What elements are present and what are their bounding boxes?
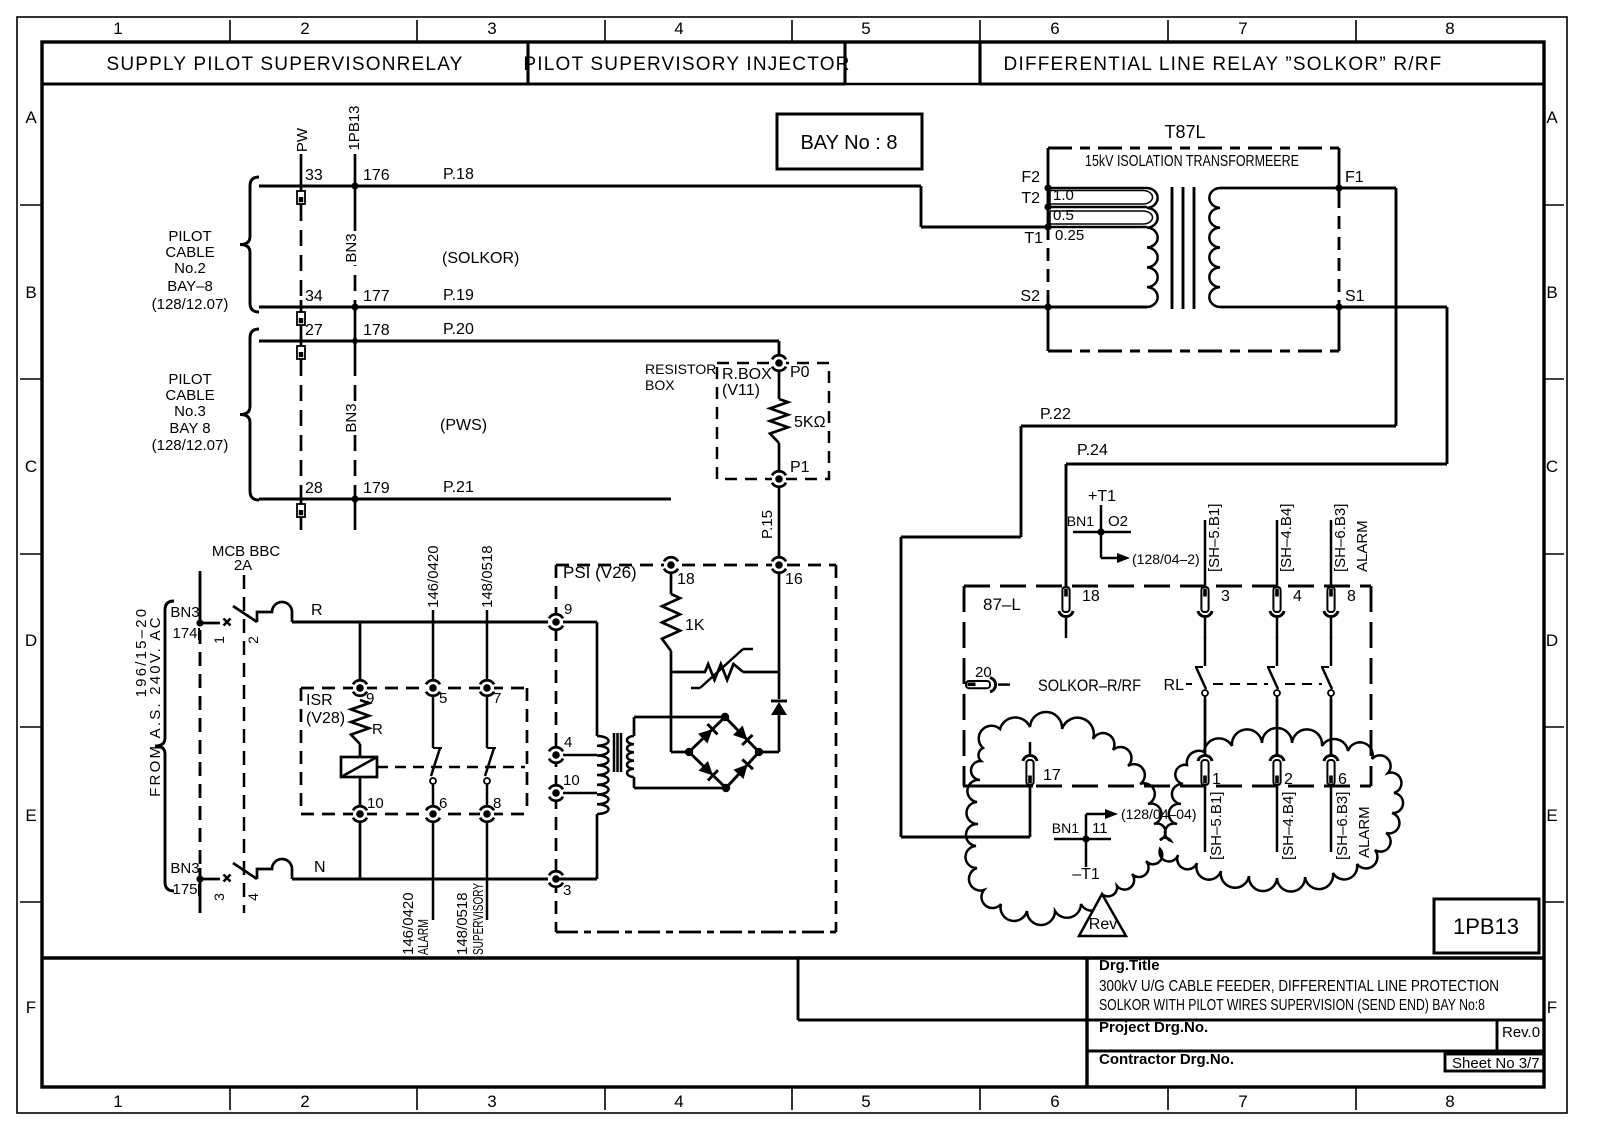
svg-text:DIFFERENTIAL LINE RELAY ”SO: DIFFERENTIAL LINE RELAY ”SOLKOR” R/RF [1004, 54, 1443, 75]
svg-text:C: C [1546, 457, 1558, 476]
svg-text:7: 7 [1238, 1092, 1247, 1111]
svg-text:Contractor Drg.No.: Contractor Drg.No. [1099, 1051, 1234, 1068]
svg-text:1.0: 1.0 [1053, 187, 1074, 204]
svg-text:P1: P1 [790, 459, 810, 476]
svg-text:O2: O2 [1108, 513, 1128, 530]
svg-text:10: 10 [563, 772, 580, 789]
svg-text:4: 4 [245, 893, 261, 901]
svg-text:6: 6 [439, 795, 447, 812]
svg-text:18: 18 [1082, 588, 1100, 605]
svg-text:[SH–5.B1]: [SH–5.B1] [1208, 792, 1225, 860]
svg-text:BOX: BOX [645, 377, 675, 393]
svg-text:P0: P0 [790, 364, 810, 381]
svg-text:P.15: P.15 [759, 510, 776, 539]
svg-text:148/0518: 148/0518 [479, 545, 496, 608]
svg-text:2: 2 [1284, 771, 1293, 788]
svg-text:S2: S2 [1020, 288, 1040, 305]
svg-text:BAY 8: BAY 8 [169, 420, 210, 437]
svg-text:8: 8 [1347, 588, 1356, 605]
svg-text:8: 8 [1445, 1092, 1454, 1111]
svg-text:Sheet No 3/7: Sheet No 3/7 [1452, 1055, 1540, 1072]
svg-text:4: 4 [674, 1092, 683, 1111]
svg-text:T1: T1 [1024, 230, 1043, 247]
svg-text:RL: RL [1164, 677, 1185, 694]
svg-text:E: E [25, 806, 36, 825]
svg-text:178: 178 [363, 322, 390, 339]
svg-text:1PB13: 1PB13 [1453, 914, 1519, 939]
svg-text:4: 4 [1293, 588, 1302, 605]
svg-text:(SOLKOR): (SOLKOR) [442, 250, 519, 267]
svg-text:P.19: P.19 [443, 287, 474, 304]
svg-text:(128/12.07): (128/12.07) [152, 296, 229, 313]
svg-text:3: 3 [1221, 588, 1230, 605]
svg-text:[SH–5.B1]: [SH–5.B1] [1206, 504, 1223, 572]
svg-text:2: 2 [300, 19, 309, 38]
svg-text:+T1: +T1 [1088, 488, 1116, 505]
svg-text:BN3: BN3 [170, 604, 199, 621]
svg-text:PW: PW [294, 127, 311, 152]
svg-text:5: 5 [861, 19, 870, 38]
svg-text:ISR: ISR [306, 692, 333, 709]
svg-text:87–L: 87–L [983, 595, 1021, 614]
svg-text:BN3: BN3 [343, 233, 360, 262]
svg-text:2: 2 [245, 636, 261, 644]
svg-text:0.25: 0.25 [1055, 227, 1084, 244]
svg-text:16: 16 [785, 571, 803, 588]
svg-text:1: 1 [211, 636, 227, 644]
svg-text:8: 8 [493, 795, 501, 812]
svg-text:P.20: P.20 [443, 321, 474, 338]
svg-text:6: 6 [1050, 19, 1059, 38]
svg-text:N: N [314, 859, 326, 876]
svg-text:PILOT: PILOT [168, 228, 211, 245]
svg-text:BN3: BN3 [170, 860, 199, 877]
svg-text:F1: F1 [1345, 169, 1364, 186]
svg-text:No.3: No.3 [174, 403, 206, 420]
svg-text:D: D [1546, 631, 1558, 650]
svg-text:7: 7 [1238, 19, 1247, 38]
svg-text:B: B [25, 283, 36, 302]
svg-text:[SH–6.B3]: [SH–6.B3] [1332, 504, 1349, 572]
svg-text:Rev.0: Rev.0 [1502, 1024, 1540, 1041]
svg-text:(128/12.07): (128/12.07) [152, 437, 229, 454]
svg-text:A: A [25, 108, 37, 127]
svg-text:(PWS): (PWS) [440, 417, 487, 434]
svg-text:177: 177 [363, 288, 390, 305]
svg-text:0.5: 0.5 [1053, 207, 1074, 224]
svg-text:B: B [1546, 283, 1557, 302]
svg-text:8: 8 [1445, 19, 1454, 38]
svg-text:[SH–4.B4]: [SH–4.B4] [1278, 504, 1295, 572]
svg-text:9: 9 [564, 601, 572, 618]
svg-text:7: 7 [493, 690, 501, 707]
svg-text:F: F [26, 998, 36, 1017]
svg-text:2A: 2A [234, 557, 252, 574]
svg-text:BAY No : 8: BAY No : 8 [800, 132, 897, 154]
svg-text:R: R [311, 602, 323, 619]
svg-text:No.2: No.2 [174, 260, 206, 277]
svg-text:SUPPLY PILOT SUPERVISONRELAY: SUPPLY PILOT SUPERVISONRELAY [106, 54, 463, 75]
svg-text:3: 3 [487, 1092, 496, 1111]
svg-text:176: 176 [363, 167, 390, 184]
svg-text:175: 175 [172, 881, 197, 898]
svg-text:20: 20 [975, 664, 992, 681]
svg-text:(V28): (V28) [306, 710, 345, 727]
svg-text:CABLE: CABLE [165, 387, 214, 404]
svg-text:PILOT: PILOT [168, 371, 211, 388]
svg-text:4: 4 [564, 734, 572, 751]
svg-text:E: E [1546, 806, 1557, 825]
svg-text:6: 6 [1338, 771, 1347, 788]
svg-text:F2: F2 [1021, 169, 1040, 186]
svg-text:146/0420: 146/0420 [425, 545, 442, 608]
svg-text:33: 33 [305, 167, 323, 184]
svg-text:Rev: Rev [1089, 916, 1117, 933]
svg-text:(V11): (V11) [722, 382, 760, 399]
svg-text:Project Drg.No.: Project Drg.No. [1099, 1019, 1208, 1036]
svg-text:CABLE: CABLE [165, 244, 214, 261]
svg-text:4: 4 [674, 19, 683, 38]
svg-text:SUPERVISORY: SUPERVISORY [470, 883, 487, 955]
svg-text:FROM A.S. 240V. AC: FROM A.S. 240V. AC [147, 615, 164, 797]
svg-text:P.24: P.24 [1077, 442, 1108, 459]
svg-text:179: 179 [363, 480, 390, 497]
svg-text:1: 1 [113, 19, 122, 38]
svg-text:6: 6 [1050, 1092, 1059, 1111]
svg-text:3: 3 [211, 893, 227, 901]
svg-text:PILOT SUPERVISORY INJECTOR: PILOT SUPERVISORY INJECTOR [523, 54, 850, 75]
svg-text:27: 27 [305, 322, 323, 339]
svg-text:ALARM: ALARM [1356, 806, 1373, 858]
svg-text:34: 34 [305, 288, 323, 305]
svg-text:S1: S1 [1345, 288, 1365, 305]
svg-text:1: 1 [1212, 771, 1221, 788]
svg-text:148/0518: 148/0518 [454, 892, 471, 955]
svg-text:P.21: P.21 [443, 479, 474, 496]
svg-text:15kV ISOLATION TRANSFORMEERE: 15kV ISOLATION TRANSFORMEERE [1085, 153, 1299, 170]
svg-text:[SH–4.B4]: [SH–4.B4] [1280, 792, 1297, 860]
svg-text:5: 5 [439, 690, 447, 707]
svg-text:3: 3 [487, 19, 496, 38]
svg-text:P.18: P.18 [443, 166, 474, 183]
svg-text:1PB13: 1PB13 [346, 105, 363, 150]
svg-text:5KΩ: 5KΩ [794, 414, 826, 431]
svg-text:28: 28 [305, 480, 323, 497]
svg-text:T87L: T87L [1164, 122, 1205, 142]
svg-text:1: 1 [113, 1092, 122, 1111]
svg-text:2: 2 [300, 1092, 309, 1111]
svg-text:SOLKOR WITH PILOT WIRES SU: SOLKOR WITH PILOT WIRES SUPERVISION (SEN… [1099, 997, 1485, 1014]
svg-text:174: 174 [172, 625, 197, 642]
svg-text:17: 17 [1043, 767, 1061, 784]
svg-text:R: R [372, 721, 383, 738]
svg-text:1K: 1K [685, 617, 705, 634]
svg-text:T2: T2 [1021, 190, 1040, 207]
svg-text:[SH–6.B3]: [SH–6.B3] [1334, 792, 1351, 860]
svg-text:BAY–8: BAY–8 [167, 278, 213, 295]
svg-text:P.22: P.22 [1040, 406, 1071, 423]
svg-text:5: 5 [861, 1092, 870, 1111]
svg-text:A: A [1546, 108, 1558, 127]
svg-text:Drg.Title: Drg.Title [1099, 957, 1160, 974]
svg-text:(128/04–2): (128/04–2) [1132, 551, 1200, 567]
svg-text:SOLKOR–R/RF: SOLKOR–R/RF [1038, 676, 1141, 695]
svg-text:ALARM: ALARM [1354, 520, 1371, 572]
svg-text:BN3: BN3 [343, 403, 360, 432]
svg-text:C: C [25, 457, 37, 476]
svg-text:ALARM: ALARM [415, 919, 432, 955]
svg-text:F: F [1547, 998, 1557, 1017]
svg-text:10: 10 [367, 795, 384, 812]
svg-text:18: 18 [677, 571, 695, 588]
svg-text:BN1: BN1 [1067, 513, 1094, 529]
svg-text:RESISTOR: RESISTOR [645, 361, 716, 377]
svg-text:11: 11 [1092, 820, 1108, 837]
svg-text:3: 3 [563, 882, 571, 899]
svg-text:–T1: –T1 [1072, 866, 1100, 883]
svg-text:300kV U/G CABLE FEEDER,: 300kV U/G CABLE FEEDER, DIFFERENTIAL LIN… [1099, 978, 1499, 995]
svg-text:BN1: BN1 [1052, 820, 1079, 836]
svg-text:R.BOX: R.BOX [722, 366, 772, 383]
svg-text:D: D [25, 631, 37, 650]
